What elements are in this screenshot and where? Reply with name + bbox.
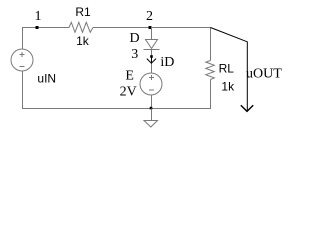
- svg-text:3: 3: [131, 47, 138, 62]
- wire top right segment R1 to corner: [93, 27, 211, 29]
- svg-text:1k: 1k: [76, 34, 90, 48]
- node 2 dot: [149, 26, 152, 29]
- diode D triangle: [146, 40, 158, 49]
- svg-text:2: 2: [146, 9, 153, 24]
- svg-text:1k: 1k: [221, 80, 235, 94]
- resistor R1: [69, 22, 93, 32]
- uIN minus sign: [19, 65, 24, 67]
- E minus sign: [149, 89, 154, 91]
- wire left branch upper: [22, 27, 24, 49]
- wire right branch lower: [210, 80, 212, 110]
- wire top left segment node1 to R1: [22, 27, 69, 29]
- source uIN circle: [11, 49, 33, 71]
- iD current arrow: [151, 57, 153, 63]
- svg-text:RL: RL: [219, 61, 235, 75]
- bottom junction dot: [150, 107, 153, 110]
- svg-text:E: E: [125, 68, 134, 83]
- ground: [144, 121, 158, 128]
- wire right branch upper: [210, 27, 212, 61]
- uOUT arrow diagonal: [211, 28, 248, 108]
- uIN plus sign: [19, 54, 24, 56]
- node 1 dot: [36, 26, 39, 29]
- wire source E to bottom: [151, 95, 153, 109]
- svg-text:uOUT: uOUT: [246, 67, 282, 82]
- iD current arrow dot: [150, 55, 153, 58]
- uOUT arrowhead: [241, 105, 253, 111]
- wire bottom: [22, 108, 211, 110]
- wire diode to source E: [151, 50, 153, 74]
- source E circle: [140, 73, 162, 95]
- wire left branch lower: [22, 71, 24, 109]
- svg-text:D: D: [130, 31, 140, 46]
- svg-text:1: 1: [35, 9, 42, 24]
- svg-text:uIN: uIN: [37, 72, 56, 86]
- wire node2 to diode: [151, 27, 153, 40]
- svg-text:2V: 2V: [120, 84, 137, 99]
- resistor RL: [206, 61, 215, 80]
- svg-text:iD: iD: [160, 55, 174, 70]
- E plus sign: [149, 76, 154, 78]
- ground stem: [151, 109, 153, 121]
- diode cathode bar: [144, 49, 160, 51]
- svg-text:R1: R1: [75, 5, 91, 19]
